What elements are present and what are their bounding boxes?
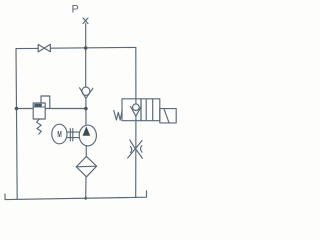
motor M circle bbox=[52, 124, 67, 144]
wire: filter to tank bbox=[85, 177, 87, 199]
wire: valve outlet down through throttle to tank line bbox=[135, 121, 137, 198]
pump P1 flow triangle bbox=[83, 126, 91, 136]
pump P1 circle bbox=[79, 125, 96, 146]
valve DV1 box1 inlet stub bbox=[135, 99, 137, 104]
valve DV1 box1 check ball bbox=[133, 104, 140, 111]
wire: right vertical drop to valve bbox=[135, 47, 137, 98]
relief valve V1 spring bbox=[37, 119, 42, 134]
valve DV1 solenoid box bbox=[160, 109, 176, 123]
relief valve V1 pilot loop bbox=[41, 96, 50, 109]
shutoff valve (bowtie) bbox=[38, 44, 50, 52]
wire: pump to filter bbox=[85, 146, 87, 157]
check valve CV1 ball bbox=[82, 87, 90, 95]
coupling shaft rails bbox=[67, 132, 80, 138]
wire: top horizontal line left of shutoff valve bbox=[16, 47, 38, 49]
wire: left vertical line bbox=[16, 49, 17, 200]
filter F1 element line bbox=[76, 165, 96, 168]
tank reservoir line bbox=[5, 191, 147, 200]
node junction dot top bbox=[84, 46, 88, 50]
throttle TH1 left hook bbox=[130, 146, 131, 152]
node junction dot on pump line bbox=[84, 107, 88, 111]
valve DV1 box1 outlet stub bbox=[135, 116, 137, 121]
throttle TH1 arrow bbox=[128, 141, 142, 158]
wire: relief valve line right segment bbox=[45, 108, 86, 110]
valve DV1 box 2 bbox=[141, 99, 160, 121]
valve DV1 solenoid diagonal bbox=[164, 109, 169, 123]
wire: top horizontal line right of shutoff valve bbox=[50, 46, 135, 49]
relief valve V1 body bbox=[33, 103, 45, 119]
valve DV1 box 1 bbox=[122, 99, 141, 121]
filter F1 diamond bbox=[76, 156, 96, 176]
svg-text:P: P bbox=[72, 4, 79, 16]
check valve CV1 seat bbox=[80, 88, 93, 99]
relief valve V1 arrow bar bbox=[34, 104, 42, 107]
wire: pressure line P vertical (top) bbox=[85, 24, 87, 88]
wire: from check valve to pump bbox=[85, 98, 87, 125]
throttle TH1 right hook bbox=[141, 146, 142, 153]
wire: relief valve line left segment bbox=[17, 108, 34, 110]
plugged port x mark bbox=[83, 18, 88, 24]
coupling bars bbox=[70, 129, 73, 141]
throttle TH1 curved stroke bbox=[130, 140, 143, 159]
node junction dot bottom bbox=[84, 197, 87, 200]
valve DV1 spring W bbox=[114, 110, 122, 120]
svg-text:M: M bbox=[57, 131, 61, 139]
node junction dot left bbox=[15, 107, 19, 111]
valve DV1 box1 check seat bbox=[131, 107, 142, 117]
valve DV1 box2 blocked paths bbox=[146, 99, 153, 121]
